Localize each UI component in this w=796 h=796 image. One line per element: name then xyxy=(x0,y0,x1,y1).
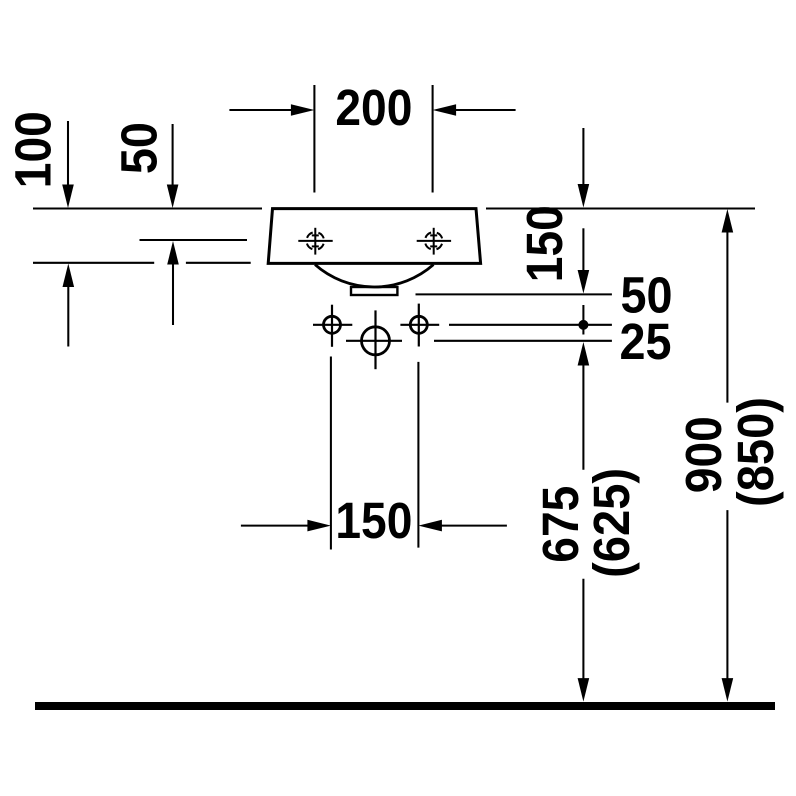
arrowhead 200 right xyxy=(433,104,457,116)
faucet hole symbol left xyxy=(298,228,332,255)
wall reference line left segment xyxy=(33,207,262,209)
arrowhead 200 left xyxy=(291,104,315,116)
faucet hole symbol right xyxy=(417,228,451,255)
dimension 200: right extension line xyxy=(432,85,434,193)
drain level extension line right xyxy=(416,293,612,295)
svg-text:100: 100 xyxy=(4,111,61,188)
svg-text:(850): (850) xyxy=(727,397,784,507)
washbasin body outline xyxy=(268,209,480,264)
dimension 50 left: stub above wall xyxy=(172,124,174,187)
arrowhead 675 down at floor xyxy=(578,678,590,702)
dimension 200: right shaft xyxy=(455,109,516,111)
svg-text:900: 900 xyxy=(675,416,732,493)
wall reference line right segment xyxy=(486,207,755,209)
dimension 100: lower shaft xyxy=(67,285,69,347)
dimension 900 shaft upper xyxy=(726,231,728,403)
dimension 675 shaft upper xyxy=(582,363,584,470)
arrowhead 900 down at floor xyxy=(722,678,734,702)
dimension 150 right: upper stub xyxy=(582,128,584,187)
basin bottom level line right part xyxy=(186,262,251,264)
arrowhead 50 left up xyxy=(167,241,179,265)
svg-text:25: 25 xyxy=(620,313,672,370)
svg-text:200: 200 xyxy=(335,79,412,136)
reference stub through dot xyxy=(582,305,584,335)
basin bowl arc xyxy=(315,265,434,287)
arrowhead 900 up at wall xyxy=(722,209,734,233)
mounting hole left xyxy=(313,305,352,347)
faucet level reference line xyxy=(140,239,248,241)
svg-text:150: 150 xyxy=(516,205,573,282)
svg-text:(625): (625) xyxy=(583,468,640,578)
dimension 200: left shaft xyxy=(229,109,292,111)
arrowhead 50 left down xyxy=(167,185,179,209)
arrowhead 150 bottom right xyxy=(418,520,442,532)
extension line below right hole xyxy=(417,362,419,548)
dimension 50 left: lower shaft xyxy=(172,263,174,325)
extension line below left hole xyxy=(330,357,332,550)
center hole level extension line right xyxy=(434,340,612,342)
arrowhead 100 down xyxy=(62,185,74,209)
arrowhead 150 right bottom xyxy=(578,270,590,294)
basin bottom level line left part xyxy=(33,262,154,264)
mounting hole right xyxy=(400,304,439,347)
arrowhead 150 right top xyxy=(578,184,590,208)
dimension 100: stub above wall xyxy=(67,121,69,187)
floor line xyxy=(35,702,775,710)
dimension 150 right: lower shaft xyxy=(582,228,584,272)
svg-text:50: 50 xyxy=(111,122,168,174)
arrowhead 25 up xyxy=(578,342,590,366)
dimension 150 bottom: left shaft xyxy=(241,525,310,527)
arrowhead 150 bottom left xyxy=(307,520,331,532)
dimension 200: left extension line xyxy=(313,85,315,193)
small holes level extension line right xyxy=(449,324,612,326)
dimension 150 bottom: right shaft xyxy=(441,525,507,527)
dimension 675 shaft lower xyxy=(582,579,584,680)
mounting hole center xyxy=(346,310,402,369)
arrowhead 100 up xyxy=(63,264,75,288)
reference dot 50/25 xyxy=(578,320,588,330)
dimension 900 shaft lower xyxy=(726,510,728,680)
svg-text:150: 150 xyxy=(335,492,412,549)
svg-text:675: 675 xyxy=(532,486,589,563)
drain tailpiece rectangle xyxy=(351,287,397,295)
